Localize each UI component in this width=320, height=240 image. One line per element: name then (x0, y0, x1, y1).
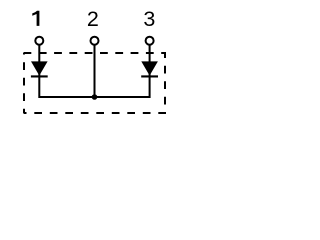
svg-text:3: 3 (143, 7, 155, 31)
diode D2 anode triangle (141, 61, 158, 75)
package outline left edge (dashed) (23, 53, 25, 113)
junction dot (92, 94, 98, 100)
package outline right edge (dashed) (164, 53, 166, 113)
wire pin1 down through diode D1 to cathode rail, rail, and up pin3 (39, 45, 149, 97)
pin 2 terminal (91, 37, 99, 45)
diode D1 cathode bar (31, 75, 48, 77)
pin 3 terminal (146, 37, 154, 45)
wire pin2 to junction (94, 45, 96, 97)
package outline top edge (dashed) (24, 52, 167, 54)
pin 1 label (32, 11, 39, 26)
package outline bottom edge (dashed) (24, 112, 167, 114)
svg-text:2: 2 (87, 7, 99, 31)
pin 1 terminal (35, 37, 43, 45)
diode D1 anode triangle (31, 61, 48, 75)
diode D2 cathode bar (141, 75, 158, 77)
